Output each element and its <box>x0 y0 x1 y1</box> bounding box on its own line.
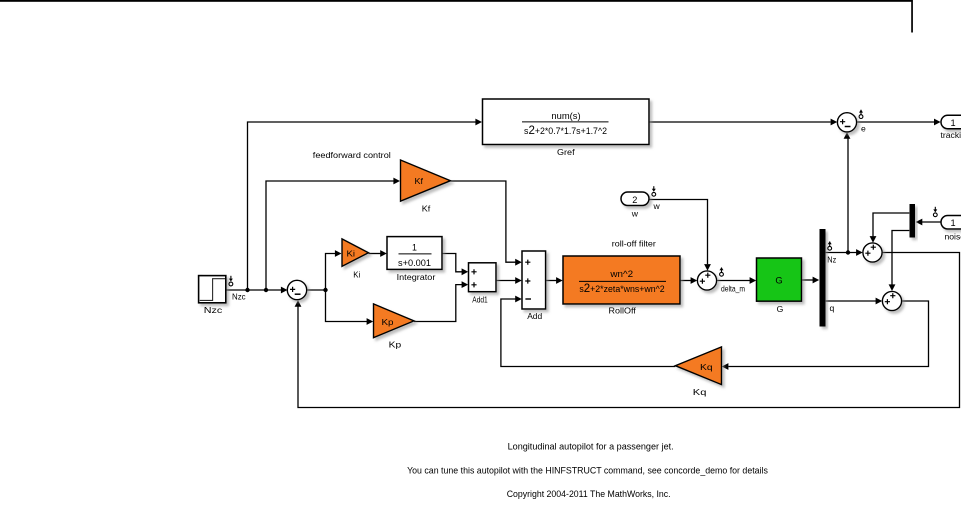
source port oval 2 w <box>621 192 649 206</box>
svg-text:1: 1 <box>412 242 417 252</box>
junction dot branch Kf riser <box>264 288 268 292</box>
wire Kq to Add in3 <box>501 299 675 367</box>
svg-text:Kf: Kf <box>415 176 424 186</box>
window right partial vertical line <box>911 0 913 33</box>
wire branch down to Kp <box>326 290 369 322</box>
svg-text:tracking: tracking <box>941 130 961 140</box>
arrowhead into Add in2 <box>515 277 522 284</box>
junction dot Nz to esum <box>846 250 850 254</box>
wire sum2 to G (delta_m) <box>717 280 750 282</box>
junction dot branch Gref riser <box>245 288 249 292</box>
svg-text:Nzc: Nzc <box>232 292 246 302</box>
input port oval 1 noise <box>941 216 961 230</box>
wire Integrator to Add1 in1 <box>442 254 462 272</box>
svg-text:Add: Add <box>527 311 542 321</box>
junction dot Ki/Kp branch <box>323 288 327 292</box>
arrowhead into Gref <box>475 119 482 126</box>
arrowhead into noise bar <box>916 219 923 226</box>
arrowhead into Kq <box>722 363 729 370</box>
svg-text:1: 1 <box>950 118 955 128</box>
arrowhead into Ki <box>335 250 342 257</box>
wire sumA output feedback loop to sum1 bottom <box>298 253 960 408</box>
window top border line <box>0 0 913 2</box>
svg-text:num(s): num(s) <box>551 111 580 121</box>
svg-text:Nz: Nz <box>827 255 836 265</box>
test point icon e <box>859 110 863 119</box>
svg-text:Copyright 2004-2011 The MathWo: Copyright 2004-2011 The MathWorks, Inc. <box>507 489 671 499</box>
svg-text:Ki: Ki <box>347 249 356 259</box>
wire Add to RollOff <box>546 280 557 282</box>
test point icon noise <box>933 207 937 217</box>
plant block G (green) <box>757 258 802 301</box>
svg-text:Ki: Ki <box>353 269 360 279</box>
sum S1 <box>287 280 306 299</box>
wire riser to Kf input <box>266 181 395 290</box>
wire sum1 output to branch junction <box>307 289 326 291</box>
arrowhead into Kp <box>367 318 374 325</box>
svg-text:G: G <box>775 275 782 286</box>
svg-text:s2+2*0.7*1.7s+1.7^2: s2+2*0.7*1.7s+1.7^2 <box>524 125 607 137</box>
sum Add1 <box>469 263 497 292</box>
svg-text:Longitudinal autopilot for a p: Longitudinal autopilot for a passenger j… <box>508 441 674 451</box>
arrowhead into RollOff <box>556 277 563 284</box>
test point icon w <box>652 186 656 196</box>
wire Gref to esum <box>649 121 830 123</box>
transfer fcn Gref <box>483 99 650 145</box>
arrowhead into demux bar <box>813 277 820 284</box>
svg-text:delta_m: delta_m <box>721 283 745 293</box>
svg-text:feedforward control: feedforward control <box>313 150 391 160</box>
wire q from demux to sumB <box>826 300 876 302</box>
arrowhead into sumB left <box>876 298 883 305</box>
svg-text:Add1: Add1 <box>472 294 488 304</box>
arrowhead into track port <box>934 119 941 126</box>
sum A (Nz + noise) <box>863 243 882 262</box>
transfer fcn Integrator <box>387 237 442 270</box>
wire noise bar out2 to sumB top <box>892 231 909 285</box>
wire noise oval to noise bar <box>922 221 941 223</box>
svg-text:wn^2: wn^2 <box>609 269 633 279</box>
arrowhead into Kf <box>393 178 400 185</box>
wire Nz from demux to sumA <box>826 252 857 254</box>
wire Kp to Add1 in2 <box>414 285 463 322</box>
gain Ki <box>342 239 369 267</box>
arrowhead into esum left <box>831 119 838 126</box>
arrowhead into sumA top <box>870 236 877 243</box>
svg-text:w: w <box>653 201 661 211</box>
arrowhead into sumB top <box>889 284 896 291</box>
arrowhead into esum bottom <box>844 132 851 139</box>
test point icon Nzc <box>229 276 233 286</box>
arrowhead into Add1 in2 <box>462 281 469 288</box>
wire branch up to Ki <box>326 254 337 291</box>
svg-text:You can tune this autopilot wi: You can tune this autopilot with the HIN… <box>407 466 768 476</box>
svg-text:RollOff: RollOff <box>609 305 637 315</box>
gain Kf <box>401 160 451 201</box>
arrowhead into sumA left <box>856 249 863 256</box>
svg-text:Kq: Kq <box>693 387 707 397</box>
arrowhead into Add in3 <box>515 296 522 303</box>
svg-text:Kf: Kf <box>422 204 431 214</box>
arrowhead into G <box>750 277 757 284</box>
arrowhead into Add in1 <box>515 259 522 266</box>
wire Kf to Add in1 <box>451 181 517 262</box>
wire Nz junction up to esum bottom <box>847 139 849 253</box>
wire Add1 to Add in2 <box>496 280 516 282</box>
wire G to demux bar <box>801 279 813 281</box>
wire RollOff to sum2 <box>680 280 691 282</box>
svg-text:Gref: Gref <box>557 147 575 157</box>
sum esum (Gref - feedback) <box>837 113 856 132</box>
svg-text:Integrator: Integrator <box>397 272 436 282</box>
svg-text:Kp: Kp <box>382 317 394 327</box>
svg-text:2: 2 <box>632 195 637 205</box>
transfer fcn RollOff <box>563 256 680 304</box>
demux bar <box>820 229 826 327</box>
sum Add <box>522 251 546 309</box>
svg-text:Nzc: Nzc <box>204 305 223 315</box>
test point icon Nz <box>828 241 832 250</box>
output port oval 1 track <box>941 115 961 129</box>
wire riser to Gref input <box>248 122 477 290</box>
gain Kp <box>374 304 415 338</box>
arrowhead into sum1 bottom <box>295 300 302 307</box>
step source Nzc <box>199 276 226 303</box>
sum2 (RollOff + w) <box>697 271 716 290</box>
gain Kq (points left) <box>675 347 721 385</box>
wire esum to track port <box>857 121 934 123</box>
svg-text:s+0.001: s+0.001 <box>398 258 431 268</box>
wire Nzc to sum1 <box>226 289 284 291</box>
wire w source to sum2 top <box>649 200 708 265</box>
svg-text:G: G <box>777 304 784 314</box>
svg-text:e: e <box>861 123 866 133</box>
svg-text:s2+2*zeta*wns+wn^2: s2+2*zeta*wns+wn^2 <box>579 283 664 295</box>
svg-text:q: q <box>830 303 835 313</box>
svg-text:noise: noise <box>945 232 961 242</box>
wire noise bar out1 to sumA top <box>873 213 909 236</box>
wire sumB output to Kq <box>729 301 929 367</box>
sum B (q + noise) <box>882 291 901 310</box>
wire Ki to Integrator <box>369 253 382 255</box>
svg-text:Kq: Kq <box>700 362 713 372</box>
svg-text:w: w <box>631 208 639 218</box>
arrowhead into sum2 left <box>691 277 698 284</box>
noise demux bar <box>910 204 916 238</box>
svg-text:roll-off filter: roll-off filter <box>612 238 656 248</box>
arrowhead into Integrator <box>380 250 387 257</box>
svg-text:1: 1 <box>950 218 955 228</box>
arrowhead into sum1 <box>281 287 288 294</box>
arrowhead into sum2 top <box>704 264 711 271</box>
test point icon delta_m <box>720 267 724 276</box>
arrowhead into Add1 in1 <box>462 268 469 275</box>
svg-text:Kp: Kp <box>389 340 402 350</box>
